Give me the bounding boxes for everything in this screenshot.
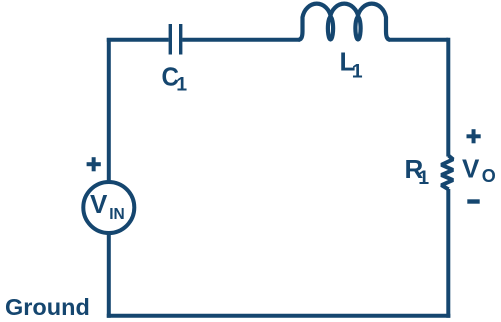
- resistor R1: [441, 156, 453, 190]
- svg-text:Ground: Ground: [5, 294, 90, 320]
- svg-text:1: 1: [352, 61, 363, 83]
- svg-text:1: 1: [418, 167, 429, 189]
- label VIN: [90, 189, 125, 223]
- source V_IN circle: [83, 182, 134, 233]
- wire left vertical bottom segment: [107, 233, 111, 318]
- wire right vertical top segment (corner to R1): [446, 38, 450, 157]
- capacitor C1: [170, 24, 180, 55]
- svg-text:1: 1: [176, 73, 187, 95]
- label VO: [462, 153, 496, 186]
- label L1: [340, 47, 363, 83]
- svg-text:O: O: [482, 166, 496, 186]
- inductor L1: [299, 4, 391, 40]
- svg-text:IN: IN: [109, 206, 125, 223]
- wire bottom segment: [107, 314, 451, 318]
- wire left vertical top segment: [107, 38, 111, 182]
- minus sign (Vo polarity): [467, 199, 479, 203]
- svg-text:V: V: [90, 189, 108, 219]
- wire top right segment (L1 to corner): [389, 38, 449, 42]
- wire top left segment (node to C1): [107, 38, 169, 42]
- plus sign (source polarity): [87, 157, 101, 171]
- plus sign (Vo polarity): [467, 129, 481, 143]
- svg-text:V: V: [462, 153, 480, 183]
- label R1: [405, 154, 430, 189]
- label C1: [162, 61, 188, 95]
- wire right vertical bottom segment (R1 to corner): [446, 189, 450, 318]
- wire top middle segment (C1 to L1): [182, 38, 300, 42]
